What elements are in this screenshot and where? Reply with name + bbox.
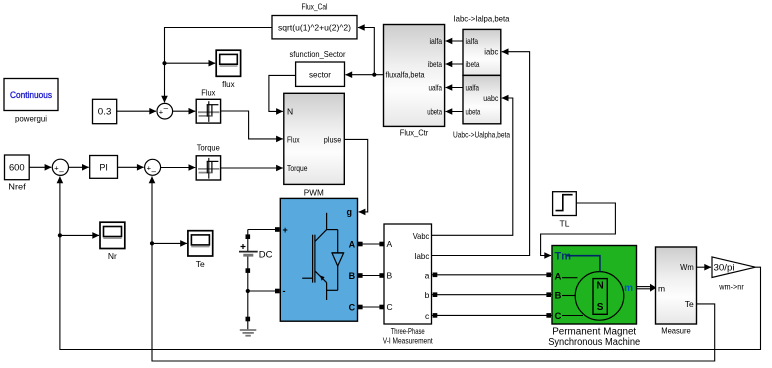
svg-text:Nref: Nref bbox=[8, 182, 26, 192]
pad PMSM A bbox=[546, 273, 551, 278]
TL step source block bbox=[553, 192, 577, 229]
wire branch to Te scope bbox=[152, 242, 187, 244]
svg-text:A: A bbox=[387, 239, 393, 249]
PWM subsystem block bbox=[284, 93, 345, 197]
pad bridge C bbox=[358, 305, 363, 310]
wire sum1 to PI bbox=[69, 166, 89, 168]
wire Vabc from measurement to conv2 bbox=[432, 98, 513, 235]
scope flux bbox=[216, 50, 240, 89]
svg-text:C: C bbox=[349, 302, 356, 312]
wire bridge B to measurement B bbox=[358, 275, 385, 277]
wire flux sum to flux relay bbox=[173, 110, 196, 112]
svg-text:-: - bbox=[283, 286, 286, 296]
svg-text:Flux: Flux bbox=[287, 134, 300, 144]
wire PWM pluse to bridge gate g bbox=[344, 139, 367, 212]
svg-text:Flux_Ctr: Flux_Ctr bbox=[400, 128, 429, 138]
svg-text:–: – bbox=[151, 167, 156, 176]
wire branch to Nr scope bbox=[60, 234, 99, 236]
Three-Phase V-I Measurement block bbox=[383, 224, 433, 346]
svg-text:Measure: Measure bbox=[661, 326, 691, 336]
wire TL to PMSM Tm bbox=[541, 203, 616, 256]
sum junction torque (sum2) bbox=[145, 159, 161, 176]
svg-text:N: N bbox=[287, 106, 293, 116]
constant block 0.3 bbox=[93, 99, 117, 123]
svg-text:sfunction_Sector: sfunction_Sector bbox=[290, 49, 346, 59]
svg-text:ialfa: ialfa bbox=[430, 36, 443, 46]
wire conv2 ualfa to Flux_Ctr bbox=[446, 87, 463, 89]
wire sqrt output to flux sum (feedback) with branch to flux scope bbox=[165, 28, 273, 103]
svg-text:–: – bbox=[164, 103, 169, 112]
IGBT and diode icon bbox=[326, 213, 328, 230]
wire Iabc from measurement to conv1 bbox=[432, 52, 530, 256]
wire measurement b to PMSM B bbox=[432, 294, 553, 296]
wire PI to sum2 bbox=[118, 166, 144, 168]
svg-text:B: B bbox=[387, 271, 393, 281]
junction DC negative node bbox=[246, 289, 250, 293]
svg-text:ibeta: ibeta bbox=[428, 59, 442, 69]
svg-text:powergui: powergui bbox=[15, 114, 47, 124]
wire branch to flux scope bbox=[165, 62, 216, 64]
svg-text:V-I Measurement: V-I Measurement bbox=[383, 336, 433, 346]
svg-text:Three-Phase: Three-Phase bbox=[391, 326, 425, 336]
wire conv2 ubeta to Flux_Ctr bbox=[446, 111, 463, 113]
wire PMSM m to Measure (vector double line) bbox=[637, 284, 657, 292]
wire 600 to sum1 bbox=[29, 166, 51, 168]
wire conv1 ialfa to Flux_Ctr bbox=[446, 40, 463, 42]
wire Flux_Ctr output to sqrt and sector bbox=[374, 74, 383, 76]
svg-text:Continuous: Continuous bbox=[10, 90, 52, 100]
svg-text:30/pi: 30/pi bbox=[714, 263, 735, 273]
wire Measure Wm to gain bbox=[697, 266, 712, 268]
pad measurement b bbox=[433, 292, 438, 297]
pad measurement B bbox=[379, 273, 384, 278]
pad measurement c bbox=[433, 313, 438, 318]
svg-text:m: m bbox=[658, 284, 665, 294]
ground symbol bbox=[240, 321, 256, 336]
svg-text:pluse: pluse bbox=[324, 134, 342, 144]
svg-text:B: B bbox=[349, 271, 356, 281]
wire gain output wm feedback to sum1 bbox=[60, 177, 761, 350]
relay Flux bbox=[196, 88, 220, 124]
svg-text:ubeta: ubeta bbox=[427, 106, 442, 116]
wire measurement c to PMSM C bbox=[432, 314, 553, 316]
svg-text:N: N bbox=[596, 281, 603, 292]
scope Te bbox=[188, 231, 213, 269]
pad bridge B bbox=[358, 273, 363, 278]
gain 30/pi triangle bbox=[712, 257, 755, 292]
scope Nr bbox=[100, 222, 125, 261]
Flux_Ctr subsystem block bbox=[384, 25, 445, 138]
PI controller block bbox=[90, 156, 118, 179]
svg-text:S: S bbox=[597, 302, 604, 313]
svg-text:ibeta: ibeta bbox=[466, 59, 480, 69]
wire bridge C to measurement C bbox=[358, 306, 385, 308]
svg-text:Synchronous Machine: Synchronous Machine bbox=[548, 337, 640, 348]
wire measurement a to PMSM A bbox=[432, 274, 553, 276]
junction Te to Te scope bbox=[150, 241, 154, 245]
constant block Nref 600 bbox=[5, 155, 30, 192]
svg-text:wm->nr: wm->nr bbox=[718, 282, 743, 292]
wire flux relay to PWM Flux input bbox=[221, 111, 283, 139]
svg-text:m: m bbox=[624, 283, 633, 294]
svg-text:–: – bbox=[59, 167, 64, 176]
svg-text:sector: sector bbox=[309, 70, 331, 80]
IGBT inverter bridge (blue) bbox=[280, 198, 357, 321]
pad DC source top bbox=[246, 234, 251, 239]
svg-text:g: g bbox=[347, 207, 353, 217]
svg-text:Vabc: Vabc bbox=[413, 231, 430, 241]
pad bridge A bbox=[358, 242, 363, 247]
wire bridge A to measurement A bbox=[358, 243, 385, 245]
Iabc to Ialpha,beta converter block bbox=[454, 14, 510, 76]
svg-text:A: A bbox=[555, 272, 562, 283]
junction flux feedback bbox=[162, 61, 166, 65]
wire conv1 ibeta to Flux_Ctr bbox=[446, 63, 463, 65]
svg-text:600: 600 bbox=[9, 163, 25, 174]
pad DC source bottom bbox=[246, 268, 251, 273]
svg-text:Uabc->Ualpha,beta: Uabc->Ualpha,beta bbox=[453, 130, 510, 140]
wire torque relay to PWM Torque input bbox=[221, 167, 283, 169]
pad measurement A bbox=[379, 242, 384, 247]
sum junction speed (sum1) bbox=[52, 159, 68, 176]
svg-text:Flux_Cal: Flux_Cal bbox=[302, 2, 328, 12]
Uabc to Ualpha,beta converter block bbox=[453, 75, 510, 139]
svg-text:+: + bbox=[283, 225, 288, 235]
svg-text:fluxalfa,beta: fluxalfa,beta bbox=[386, 70, 425, 80]
svg-text:PWM: PWM bbox=[304, 188, 324, 198]
wire sector to PWM N input bbox=[269, 75, 296, 111]
svg-text:C: C bbox=[387, 302, 393, 312]
junction wm to Nr scope bbox=[58, 233, 62, 237]
svg-text:Iabc: Iabc bbox=[414, 251, 430, 261]
svg-text:DC: DC bbox=[259, 250, 273, 261]
svg-text:Te: Te bbox=[685, 299, 694, 309]
svg-text:ialfa: ialfa bbox=[466, 36, 479, 46]
svg-text:ubeta: ubeta bbox=[466, 106, 481, 116]
pad PMSM B bbox=[546, 292, 551, 297]
svg-text:Permanent Magnet: Permanent Magnet bbox=[552, 327, 636, 338]
pad measurement C bbox=[379, 305, 384, 310]
svg-text:b: b bbox=[425, 290, 430, 300]
wire Measure Te feedback to sum2 bbox=[152, 177, 715, 362]
relay Torque bbox=[196, 143, 220, 181]
pad PMSM C bbox=[546, 313, 551, 318]
svg-text:Te: Te bbox=[196, 259, 205, 269]
svg-text:PI: PI bbox=[99, 162, 108, 172]
svg-text:Iabc->Ialpa,beta: Iabc->Ialpa,beta bbox=[454, 14, 510, 24]
pad ground bbox=[246, 317, 251, 322]
powergui block bbox=[4, 79, 58, 124]
svg-text:ualfa: ualfa bbox=[429, 82, 443, 92]
svg-text:A: A bbox=[349, 239, 356, 249]
svg-text:iabc: iabc bbox=[484, 47, 499, 57]
Flux_Cal sqrt block bbox=[272, 2, 357, 39]
wire 0.3 to flux sum bbox=[117, 110, 156, 112]
svg-text:Torque: Torque bbox=[287, 163, 308, 173]
svg-text:sqrt(u(1)^2+u(2)^2): sqrt(u(1)^2+u(2)^2) bbox=[278, 22, 351, 32]
svg-text:c: c bbox=[425, 311, 430, 321]
svg-text:Wm: Wm bbox=[680, 262, 694, 272]
svg-text:0.3: 0.3 bbox=[98, 107, 112, 118]
sum junction flux (sumF) bbox=[157, 103, 173, 119]
svg-text:uabc: uabc bbox=[483, 93, 499, 103]
junction fluxalfa net bbox=[372, 73, 376, 77]
svg-text:TL: TL bbox=[560, 219, 570, 229]
Permanent Magnet Synchronous Machine block (green) bbox=[548, 246, 640, 349]
svg-text:Flux: Flux bbox=[201, 88, 216, 98]
Measure block bbox=[656, 247, 697, 336]
svg-text:B: B bbox=[555, 291, 562, 302]
svg-text:a: a bbox=[425, 270, 430, 280]
svg-text:flux: flux bbox=[222, 79, 235, 89]
svg-text:C: C bbox=[555, 311, 562, 322]
sfunction_Sector block bbox=[290, 49, 346, 86]
svg-text:ualfa: ualfa bbox=[466, 82, 480, 92]
pad bridge minus bbox=[275, 289, 280, 294]
svg-text:Torque: Torque bbox=[197, 143, 220, 153]
pad bridge plus bbox=[275, 227, 280, 232]
svg-text:Nr: Nr bbox=[108, 251, 117, 261]
wire sum2 to torque relay bbox=[161, 167, 196, 169]
pad measurement a bbox=[433, 273, 438, 278]
DC voltage source bbox=[239, 230, 278, 322]
